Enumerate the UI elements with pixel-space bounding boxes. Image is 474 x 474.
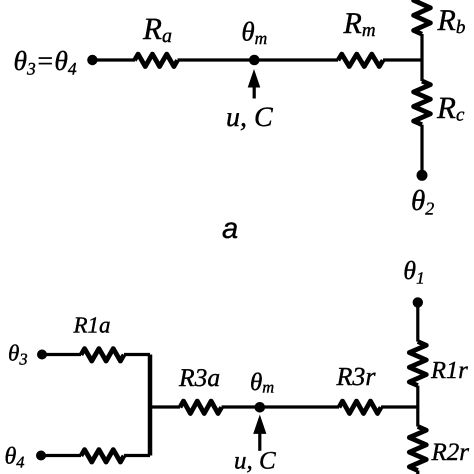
wire Rm to junction (383, 58, 422, 61)
resistor R3a (180, 401, 222, 413)
svg-text:u, C: u, C (226, 102, 273, 133)
resistor R1a (81, 349, 124, 361)
svg-text:θ1: θ1 (403, 256, 424, 288)
arrow u,C (pointing up at theta_m) (248, 71, 259, 88)
resistor Ra (135, 54, 178, 66)
svg-text:Rc: Rc (436, 90, 465, 126)
svg-text:Ra: Ra (142, 11, 172, 47)
terminal dot theta3/theta4 (87, 55, 97, 65)
wire Ra to node theta_m (178, 58, 255, 61)
terminal dot theta2 (417, 170, 428, 181)
svg-text:θ3=θ4: θ3=θ4 (14, 45, 77, 78)
resistor R2a (unlabeled) (81, 450, 124, 462)
wire theta_m to R3r (260, 405, 339, 408)
svg-text:R3a: R3a (178, 363, 220, 392)
wire R2r to bottom edge (416, 471, 419, 474)
resistor Rm (338, 54, 383, 66)
svg-text:θ3: θ3 (8, 341, 28, 369)
wire theta_m to Rm (254, 58, 338, 61)
resistor R3r (339, 401, 381, 413)
wire junction to R2r (416, 407, 419, 427)
wire theta3 to R1a (42, 353, 81, 356)
terminal dot theta4 (bottom) (36, 451, 46, 461)
wire R1r to junction (416, 386, 419, 407)
node theta_m dot (bottom) (254, 402, 265, 413)
wire R1a to bus (124, 353, 150, 356)
wire bus to R3a (148, 405, 180, 408)
wire R3a to node theta_m (222, 405, 260, 408)
svg-text:θ4: θ4 (5, 444, 25, 472)
wire R3r to junction (381, 405, 418, 408)
svg-text:Rm: Rm (343, 7, 376, 41)
svg-text:θm: θm (250, 369, 274, 397)
svg-text:Rb: Rb (437, 4, 466, 38)
svg-text:θ2: θ2 (411, 185, 434, 219)
bus vertical wire (148, 355, 153, 456)
svg-text:R1r: R1r (430, 357, 468, 384)
svg-text:θm: θm (241, 17, 267, 49)
wire terminal to Ra (92, 58, 135, 61)
terminal dot theta1 (413, 297, 423, 307)
node theta_m dot (249, 55, 260, 66)
svg-text:a: a (222, 213, 238, 245)
resistor R1r (409, 342, 426, 386)
wire theta4 to R2a (41, 454, 81, 457)
wire R2a to bus (124, 454, 150, 457)
svg-text:R1a: R1a (73, 313, 111, 338)
svg-text:u, C: u, C (234, 448, 276, 474)
resistor Rc (414, 81, 431, 125)
wire theta1 to R1r (416, 302, 419, 341)
svg-text:R2r: R2r (431, 439, 470, 466)
arrow u,C (bottom) (254, 416, 266, 433)
svg-text:R3r: R3r (336, 362, 377, 391)
wire Rc to terminal theta2 (420, 125, 423, 176)
wire junction to Rc (420, 60, 423, 81)
terminal dot theta3 (bottom) (37, 350, 47, 360)
wire Rb to junction (420, 34, 423, 60)
resistor R2r (cut by bottom edge) (409, 427, 426, 471)
resistor Rb (cut by top edge) (414, 0, 431, 34)
